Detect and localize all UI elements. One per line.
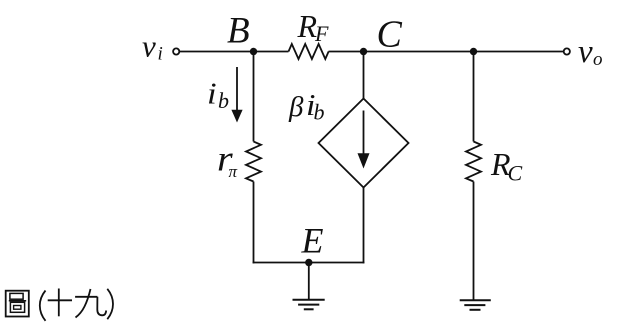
input terminal vi: [173, 48, 179, 54]
svg-text:b: b: [314, 99, 325, 124]
i_b current arrowhead: [231, 110, 242, 123]
svg-text:b: b: [218, 88, 229, 113]
svg-text:i: i: [158, 44, 163, 65]
resistor r_pi: [246, 142, 261, 182]
svg-text:β: β: [288, 91, 304, 123]
current source arrowhead: [358, 153, 370, 168]
wire node B down to r_pi: [253, 52, 255, 142]
svg-text:o: o: [593, 49, 603, 70]
svg-text:π: π: [229, 162, 238, 181]
i_b current arrow shaft: [236, 67, 238, 112]
caption close paren: [107, 289, 113, 319]
wire r_pi down to bottom rail: [253, 182, 255, 264]
svg-text:v: v: [578, 34, 593, 70]
resistor RF: [289, 44, 329, 59]
output terminal vo: [564, 48, 570, 54]
node dot B: [250, 48, 257, 55]
wire RF to node C to vo: [329, 51, 564, 53]
wire input to node B to RF: [180, 51, 289, 53]
node dot C: [360, 48, 367, 55]
caption figure nineteen: char TU (picture): [6, 291, 29, 317]
node dot E: [305, 259, 312, 266]
svg-text:B: B: [227, 11, 250, 52]
svg-text:i: i: [207, 77, 217, 111]
caption char JIU (nine): [75, 289, 106, 318]
svg-text:v: v: [142, 29, 156, 64]
resistor RC: [466, 142, 481, 182]
svg-text:E: E: [301, 221, 324, 261]
wire node C down to current source: [363, 52, 365, 99]
ground at node E: [293, 300, 325, 310]
svg-text:C: C: [508, 161, 523, 186]
caption open paren: [40, 291, 46, 321]
svg-text:F: F: [314, 21, 329, 46]
wire bottom rail B-branch to E to source branch: [253, 262, 365, 264]
current source arrow shaft: [363, 111, 365, 156]
ground at RC: [460, 300, 491, 310]
wire current source down to bottom rail: [363, 188, 365, 264]
wire RC down to ground: [473, 182, 475, 301]
svg-text:C: C: [377, 13, 403, 55]
dependent current source diamond U1: [319, 99, 409, 188]
node dot RC junction: [470, 48, 477, 55]
caption char SHI (ten): [48, 289, 72, 317]
wire node E down to ground: [308, 263, 310, 300]
wire junction down to RC: [473, 52, 475, 142]
